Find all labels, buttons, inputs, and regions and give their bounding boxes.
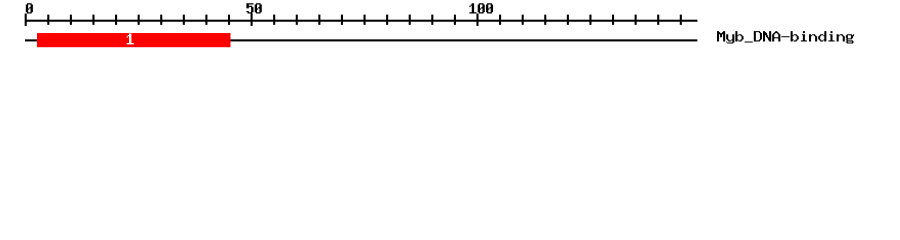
domain name Myb_DNA-binding <box>717 31 854 43</box>
ruler label 0 <box>26 3 33 13</box>
domain box (Myb_DNA-binding hit 1) <box>37 33 231 47</box>
ruler axis line <box>25 20 697 22</box>
ruler label 50 <box>246 3 261 13</box>
sequence backbone line <box>25 39 697 41</box>
ruler tick marks (every 5 residues) <box>25 14 682 26</box>
ruler label 100 <box>469 3 493 13</box>
domain number 1 <box>127 34 134 45</box>
